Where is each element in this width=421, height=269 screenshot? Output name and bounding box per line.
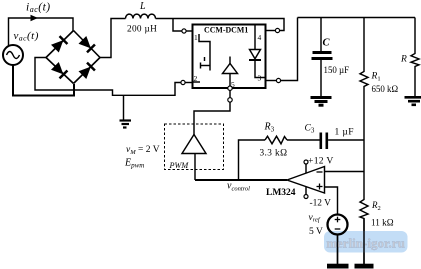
ground bar under R2 xyxy=(355,264,374,269)
watermark box xyxy=(324,231,408,253)
ac source v_ac xyxy=(3,45,23,65)
wire pin1 stub xyxy=(186,30,192,32)
dashed box PWM xyxy=(165,124,224,170)
svg-text:650 kΩ: 650 kΩ xyxy=(372,84,399,94)
bridge arm top-left xyxy=(46,31,74,58)
wire pin2 inside stub xyxy=(193,81,201,83)
svg-text:CCM-DCM1: CCM-DCM1 xyxy=(204,26,248,35)
terminal pin 4 xyxy=(275,28,279,32)
svg-text:iac(t): iac(t) xyxy=(26,2,51,15)
svg-text:3.3 kΩ: 3.3 kΩ xyxy=(260,149,288,159)
svg-text:PWM: PWM xyxy=(169,161,190,170)
capacitor C branch xyxy=(320,18,322,52)
svg-text:+12 V: +12 V xyxy=(308,156,334,167)
wire R3 to C3 xyxy=(287,139,320,141)
capacitor C3 xyxy=(320,133,323,150)
terminal pin 2 xyxy=(181,80,185,84)
mosfet Q1 inside box xyxy=(199,34,210,71)
current arrow xyxy=(31,15,39,21)
svg-text:200 µH: 200 µH xyxy=(127,25,157,35)
wire bridge right vertex to inductor xyxy=(100,19,126,58)
wire R2 ground over watermark xyxy=(363,219,365,265)
wire pin3 stub xyxy=(266,80,277,82)
supply -12V xyxy=(305,187,307,195)
wire source top to bridge top xyxy=(9,18,74,46)
svg-text:1: 1 xyxy=(194,33,198,42)
wire pwm input from duty terminal xyxy=(194,102,230,134)
inductor L xyxy=(126,14,156,18)
wire top output rail xyxy=(298,17,416,19)
wire inverting input xyxy=(325,171,365,173)
pwm comparator triangle xyxy=(182,135,206,154)
svg-text:vac(t): vac(t) xyxy=(14,30,39,43)
bridge arm bottom-left xyxy=(46,58,74,84)
terminal pin 3 xyxy=(276,78,280,82)
wire C3 to node xyxy=(328,139,364,141)
wire vref ground over watermark xyxy=(337,235,339,265)
ground bar under vref xyxy=(327,264,349,269)
diode D5 inside box xyxy=(254,25,256,50)
resistor R branch xyxy=(411,18,419,97)
resistor R3 xyxy=(265,136,287,144)
wire pin5 xyxy=(229,90,231,97)
wire pin1 drop xyxy=(173,19,182,32)
wire noninverting input to vref xyxy=(325,187,338,214)
wire dc-minus bracket from left vertex to pin2 xyxy=(35,58,181,96)
diode D4 (lower-right arm) xyxy=(78,63,94,79)
feedback wire to R3 xyxy=(239,140,266,180)
wire v_control rail xyxy=(195,179,287,181)
wire pin4 stub xyxy=(266,30,276,32)
svg-text:C: C xyxy=(323,38,331,49)
wire source return (thick) xyxy=(13,65,74,96)
op-amp U1 LM324 xyxy=(287,167,325,194)
ground under C xyxy=(311,98,332,106)
box CCM-DCM1 xyxy=(193,25,266,89)
supply +12V xyxy=(305,164,307,173)
resistor R1 xyxy=(360,18,368,141)
terminal pin 1 xyxy=(182,29,186,33)
wire pin2 stub xyxy=(185,82,192,84)
bridge arm bottom-right xyxy=(74,58,101,84)
svg-text:150 µF: 150 µF xyxy=(324,65,350,75)
ground (dc return) xyxy=(123,95,125,119)
diode D3 (lower-left arm) xyxy=(51,62,67,78)
wire vref to ground xyxy=(337,234,339,265)
svg-text:4: 4 xyxy=(258,33,262,42)
resistor R2 xyxy=(360,140,368,264)
terminal pin5 on box edge xyxy=(228,86,232,90)
source v_ref xyxy=(328,215,348,235)
wire pin3 to top rail xyxy=(281,18,298,81)
wire inductor to pin4 corner xyxy=(156,19,285,31)
svg-text:11 kΩ: 11 kΩ xyxy=(371,218,394,228)
svg-text:LM324: LM324 xyxy=(266,188,296,198)
svg-text:R: R xyxy=(400,55,407,65)
diode D1 (upper-left arm) xyxy=(51,36,67,52)
svg-text:L: L xyxy=(139,1,146,12)
terminal duty input xyxy=(228,98,232,102)
diode D2 (upper-right arm) xyxy=(78,36,94,52)
wire pwm to v_control rail xyxy=(194,154,196,181)
gate driver triangle xyxy=(223,64,238,74)
svg-text:1 µF: 1 µF xyxy=(335,128,354,138)
svg-text:-12 V: -12 V xyxy=(310,199,332,209)
ground under R xyxy=(405,97,421,105)
bridge arm top-right xyxy=(74,31,101,58)
svg-text:5 V: 5 V xyxy=(309,227,323,237)
